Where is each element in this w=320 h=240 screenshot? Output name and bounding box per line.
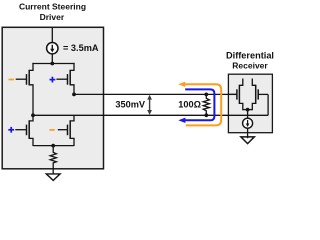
node dot R2 bottom <box>204 113 208 117</box>
wire to ground <box>52 169 54 174</box>
wire top output to receiver <box>74 93 237 95</box>
svg-text:100Ω: 100Ω <box>178 100 201 110</box>
node dot A top output <box>72 93 76 97</box>
current loop arrow orange <box>178 82 221 126</box>
transistor Q3 lower-left <box>15 115 33 146</box>
label minus Q4 <box>49 129 54 131</box>
wire from box top to current source I1 <box>51 27 53 42</box>
svg-text:Driver: Driver <box>40 12 65 22</box>
svg-text:Receiver: Receiver <box>232 61 268 71</box>
label plus Q2 <box>50 77 56 83</box>
driver title <box>19 1 86 22</box>
wire I2 to box bottom <box>247 128 249 138</box>
driver box <box>2 27 103 169</box>
node dot sources <box>51 144 55 148</box>
node dot receiver sources <box>246 108 250 112</box>
ground (driver) <box>46 174 60 181</box>
wire sources to current source I2 <box>247 110 249 119</box>
ground (receiver) <box>241 137 254 144</box>
label plus Q3 <box>8 127 14 133</box>
svg-text:= 3.5mA: = 3.5mA <box>63 43 99 53</box>
wire bottom output to receiver right side <box>33 114 268 116</box>
node dot B bottom output <box>31 113 35 117</box>
current loop arrow blue <box>178 89 214 123</box>
svg-text:350mV: 350mV <box>115 100 145 110</box>
transistor Q2 upper-right <box>56 63 74 95</box>
receiver box <box>228 74 272 133</box>
current source I2 <box>243 118 253 128</box>
svg-text:Current Steering: Current Steering <box>19 1 86 11</box>
wire current source to rail <box>51 54 53 64</box>
current source I1 <box>47 43 58 54</box>
node dot rail junction <box>50 62 54 66</box>
transistor Q4 lower-right <box>58 115 74 146</box>
svg-text:Differential: Differential <box>226 50 274 60</box>
label minus Q1 <box>9 79 14 81</box>
transistor Q1 upper-left <box>16 63 33 115</box>
receiver transistor Q6 right <box>252 79 268 116</box>
wire lower sources bar <box>33 145 74 147</box>
measurement arrow 350mV <box>147 95 152 115</box>
receiver transistor Q5 left <box>228 79 242 111</box>
wire rail <box>32 63 74 65</box>
receiver title <box>226 50 274 70</box>
node dot R2 top <box>204 93 208 97</box>
resistor R2 100ohm termination <box>203 94 209 115</box>
wire receiver sources bar <box>243 109 253 111</box>
resistor R1 (driver tail) <box>50 146 56 169</box>
